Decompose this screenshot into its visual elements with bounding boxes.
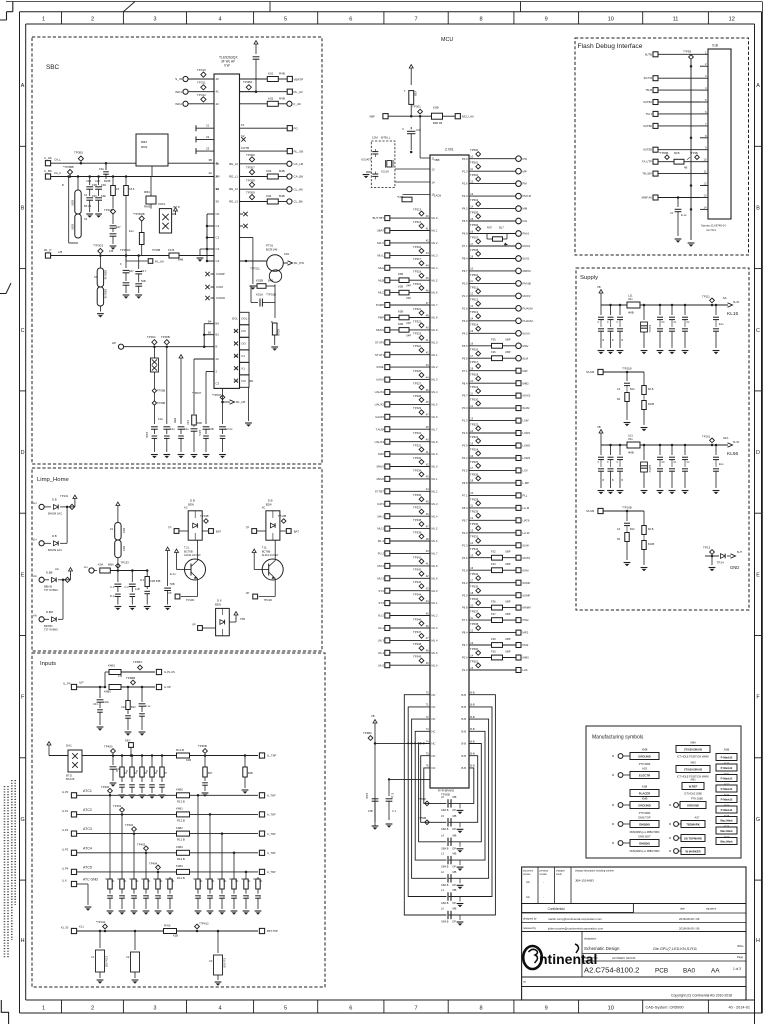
MCU left pin row 23 wire bbox=[385, 489, 390, 494]
capacitor column b left 1 bbox=[600, 445, 602, 455]
svg-text:A_T6P: A_T6P bbox=[267, 870, 276, 874]
MCU IC U1 body bbox=[430, 155, 469, 788]
svg-text:ML.3: ML.3 bbox=[432, 626, 438, 630]
svg-text:C42: C42 bbox=[121, 705, 126, 709]
filter chain a x644 bbox=[643, 372, 645, 385]
svg-text:C: C bbox=[756, 328, 760, 334]
svg-text:ML.3: ML.3 bbox=[432, 254, 438, 258]
test point TP131 bbox=[66, 506, 69, 509]
svg-text:K02: K02 bbox=[268, 96, 274, 100]
resistor on left row 6 bbox=[399, 278, 409, 283]
svg-text:BAV99 2AC: BAV99 2AC bbox=[48, 512, 62, 516]
fold mark top tick 2 bbox=[269, 2, 271, 12]
svg-text:P6.8: P6.8 bbox=[462, 606, 468, 610]
svg-text:C22: C22 bbox=[416, 128, 421, 132]
svg-text:JBA-1514AB3: JBA-1514AB3 bbox=[575, 879, 594, 883]
svg-text:TP511: TP511 bbox=[470, 285, 478, 289]
sheet right edge line bbox=[761, 2, 763, 1014]
svg-text:B: B bbox=[756, 206, 760, 212]
svg-text:*TP11B: *TP11B bbox=[622, 367, 632, 371]
svg-text:P6.8: P6.8 bbox=[462, 481, 468, 485]
svg-text:5: 5 bbox=[284, 1006, 287, 1012]
svg-text:VBB: VBB bbox=[434, 158, 440, 162]
svg-text:DO: DO bbox=[242, 329, 247, 333]
svg-text:IL.PLUS: IL.PLUS bbox=[164, 670, 175, 674]
svg-text:C2: C2 bbox=[126, 955, 130, 959]
SBC right pin row CA_H6 bbox=[240, 163, 287, 165]
svg-text:C3: C3 bbox=[209, 959, 213, 963]
svg-text:TP505: TP505 bbox=[470, 210, 479, 214]
svg-text:MU.L: MU.L bbox=[377, 254, 384, 258]
svg-text:R12.B: R12.B bbox=[177, 857, 185, 861]
svg-text:TP111: TP111 bbox=[702, 294, 710, 298]
SBC inner no-connect marks right side bbox=[234, 329, 238, 333]
MCU right pin row 5 wire bbox=[469, 208, 516, 210]
svg-text:R4.B: R4.B bbox=[164, 923, 170, 927]
terminal A left bbox=[174, 529, 179, 534]
svg-text:TP323: TP323 bbox=[413, 332, 422, 336]
SBC right pin box row 4 bbox=[240, 350, 250, 362]
svg-text:6UM: 6UM bbox=[523, 568, 530, 572]
svg-text:BT.D: BT.D bbox=[66, 774, 72, 778]
test point TP517 on right row 18 bbox=[476, 364, 481, 369]
svg-text:PTH.30B0: PTH.30B0 bbox=[691, 797, 704, 801]
svg-text:released by: released by bbox=[523, 927, 537, 930]
svg-text:B: B bbox=[21, 206, 25, 212]
svg-text:MLC: MLC bbox=[378, 291, 384, 295]
svg-text:MM2: MM2 bbox=[523, 381, 530, 385]
connector X1B pin 13 bbox=[700, 197, 708, 199]
RC filter column group1 5 bbox=[157, 877, 159, 879]
svg-text:ML.6: ML.6 bbox=[432, 539, 438, 543]
MCU left pin row 25 wire bbox=[385, 514, 390, 519]
test point TP314 on left row 5 bbox=[419, 261, 424, 266]
svg-text:K1: K1 bbox=[242, 367, 246, 371]
svg-text:E1u: E1u bbox=[719, 323, 724, 326]
resistor RB4 bbox=[150, 177, 152, 197]
test point TP526 on right row 27 bbox=[476, 476, 481, 481]
svg-text:LXW2: LXW2 bbox=[523, 444, 531, 448]
svg-text:AL911.04.F1D: AL911.04.F1D bbox=[262, 553, 279, 557]
svg-text:TP500: TP500 bbox=[470, 647, 479, 651]
svg-text:VBF: VBF bbox=[369, 114, 375, 118]
svg-text:TP307: TP307 bbox=[246, 166, 255, 170]
svg-text:6UW: 6UW bbox=[523, 543, 530, 547]
svg-text:BCT6B: BCT6B bbox=[262, 549, 271, 553]
svg-text:T2T W BMC: T2T W BMC bbox=[44, 628, 58, 632]
svg-text:B-B: B-B bbox=[462, 754, 467, 758]
svg-text:6: 6 bbox=[349, 17, 352, 23]
svg-text:PU.2: PU.2 bbox=[378, 552, 385, 556]
test point TP311 bbox=[201, 85, 206, 90]
svg-text:IL.6: IL.6 bbox=[62, 879, 67, 883]
svg-text:TP326: TP326 bbox=[413, 369, 422, 373]
manufacturing fiducial rect 8 bbox=[716, 827, 737, 834]
svg-text:8: 8 bbox=[479, 17, 482, 23]
svg-text:4: 4 bbox=[219, 1006, 222, 1012]
svg-text:GB4.B: GB4.B bbox=[441, 884, 449, 887]
terminal ATC4 out bbox=[259, 850, 264, 855]
svg-text:L.MP: L.MP bbox=[523, 481, 530, 485]
svg-text:R: R bbox=[126, 770, 128, 773]
terminal B right bbox=[280, 530, 286, 532]
svg-text:TM.B: TM.B bbox=[645, 88, 652, 92]
svg-text:UBP: UBP bbox=[505, 350, 511, 354]
RC filter column group2 1 bbox=[197, 877, 199, 879]
svg-text:mm 5x1: mm 5x1 bbox=[706, 228, 716, 232]
svg-text:RB4: RB4 bbox=[144, 190, 150, 194]
svg-text:MP: MP bbox=[523, 169, 527, 173]
svg-text:P4.2: P4.2 bbox=[462, 331, 468, 335]
svg-text:TP: TP bbox=[246, 526, 250, 530]
SBC stair pin row 2 bbox=[207, 225, 214, 227]
MCU right pin row 32 wire bbox=[469, 544, 516, 546]
resistor on right row 34 bbox=[492, 568, 503, 573]
oscillator wire to pin 14 bbox=[395, 181, 430, 183]
svg-text:TP314: TP314 bbox=[413, 220, 422, 224]
test point TP346 on left row 37 bbox=[419, 658, 424, 663]
test point TP514 on right row 15 bbox=[476, 326, 481, 331]
svg-text:PW2: PW2 bbox=[523, 618, 530, 622]
svg-text:T.2L: T.2L bbox=[262, 546, 268, 550]
svg-text:*TP56B: *TP56B bbox=[659, 151, 668, 155]
terminal 6UTB3 wire bbox=[653, 147, 658, 152]
svg-text:AC: AC bbox=[262, 506, 266, 510]
svg-text:*TP007: *TP007 bbox=[212, 393, 222, 397]
capacitor column a left 2 bbox=[609, 304, 612, 307]
test point on ATC5 bbox=[157, 871, 160, 874]
svg-text:ML.2: ML.2 bbox=[378, 539, 385, 543]
manufacturing symbol mid XMA bbox=[676, 746, 710, 753]
battery divider resistor stack left bbox=[68, 177, 70, 244]
svg-text:XMA: XMA bbox=[690, 741, 696, 745]
svg-text:BAT: BAT bbox=[294, 529, 300, 533]
svg-text:ML.2: ML.2 bbox=[432, 614, 438, 618]
svg-text:ST.3: ST.3 bbox=[378, 601, 384, 605]
test point TP339 on left row 30 bbox=[419, 571, 424, 576]
svg-text:T6B: T6B bbox=[240, 617, 245, 621]
test point TP510 on right row 11 bbox=[476, 276, 481, 281]
MCU right pin row 13 wire bbox=[469, 307, 516, 309]
svg-text:ML.8: ML.8 bbox=[432, 316, 438, 320]
svg-text:VB: VB bbox=[597, 425, 601, 429]
test point TP340 on left row 31 bbox=[419, 584, 424, 589]
svg-text:TP30B: TP30B bbox=[157, 401, 165, 405]
svg-text:R07: R07 bbox=[487, 225, 492, 229]
test point TP40B main bbox=[203, 749, 208, 754]
svg-text:G: G bbox=[20, 817, 24, 823]
svg-text:D.1u: D.1u bbox=[110, 594, 116, 598]
svg-text:R12.B: R12.B bbox=[177, 838, 185, 842]
svg-text:MB: MB bbox=[453, 852, 457, 856]
svg-text:2T/A3/A3K/AB: 2T/A3/A3K/AB bbox=[684, 748, 702, 752]
capacitor column a left 1 bbox=[600, 305, 602, 315]
svg-text:13: 13 bbox=[704, 194, 707, 198]
svg-text:C: C bbox=[112, 896, 114, 899]
connector X1B pin 10 bbox=[700, 161, 708, 163]
svg-text:6UM2: 6UM2 bbox=[523, 581, 531, 585]
svg-text:P2.6: P2.6 bbox=[462, 182, 468, 186]
svg-text:2.B: 2.B bbox=[118, 674, 122, 678]
test point TP325 on left row 16 bbox=[419, 397, 424, 402]
svg-text:BZX: BZX bbox=[122, 546, 126, 551]
svg-text:ICT HOLE POSITION MARK: ICT HOLE POSITION MARK bbox=[677, 756, 709, 759]
capacitor C701 debug bbox=[677, 196, 680, 199]
svg-text:TP538: TP538 bbox=[470, 622, 479, 626]
capacitor column 3 left cluster bbox=[105, 163, 107, 170]
terminal ILP_IN upper bbox=[156, 669, 161, 674]
svg-text:R12.B: R12.B bbox=[176, 748, 184, 752]
emitter wire to terminal B bbox=[274, 579, 276, 597]
terminal arrow KL56 bbox=[728, 443, 733, 447]
svg-text:PCB: PCB bbox=[655, 968, 668, 975]
svg-text:T6U.BV: T6U.BV bbox=[642, 172, 652, 176]
svg-text:TP518: TP518 bbox=[470, 373, 479, 377]
svg-text:VP: VP bbox=[168, 591, 172, 595]
MCU left pin row 19 wire bbox=[385, 439, 390, 444]
svg-text:14: 14 bbox=[432, 181, 436, 185]
test point TP133 bbox=[117, 569, 120, 572]
svg-text:C3: C3 bbox=[216, 382, 220, 386]
terminal ATC4 bbox=[71, 850, 76, 855]
crystal X300 bbox=[387, 161, 392, 167]
svg-text:Copyright (C) Continental AG 2: Copyright (C) Continental AG 2010-2018 bbox=[671, 994, 732, 998]
opto diode box D146 bbox=[266, 511, 280, 540]
SBC no-connect pin COMH bbox=[211, 297, 215, 299]
wire RB3 top to SBC row bbox=[151, 166, 153, 177]
svg-text:TP30B: TP30B bbox=[161, 335, 170, 339]
sheet top edge line bbox=[6, 1, 762, 3]
RC column DA1 2 bbox=[131, 754, 134, 757]
svg-text:A2.C754-8100.2: A2.C754-8100.2 bbox=[584, 966, 639, 975]
resistor on right row 33 bbox=[492, 555, 503, 560]
svg-text:R4B: R4B bbox=[279, 72, 285, 76]
svg-text:TP400: TP400 bbox=[101, 785, 110, 789]
svg-text:D.BM: D.BM bbox=[46, 610, 54, 614]
svg-text:C1: C1 bbox=[91, 955, 95, 959]
svg-text:P3.9: P3.9 bbox=[462, 194, 468, 198]
RC column DA1 3 bbox=[141, 754, 144, 757]
svg-text:GB4.B: GB4.B bbox=[441, 902, 449, 905]
svg-text:42: 42 bbox=[216, 102, 220, 106]
svg-text:MA.2: MA.2 bbox=[377, 514, 384, 518]
test point TP324 on left row 15 bbox=[419, 385, 424, 390]
resistor R442 lower bbox=[105, 686, 109, 688]
svg-text:TP133: TP133 bbox=[121, 561, 130, 565]
test point TP530 on right row 31 bbox=[476, 526, 481, 531]
zener stack D135 bbox=[115, 523, 121, 541]
test point TP328 on left row 19 bbox=[419, 435, 424, 440]
svg-text:6UX1: 6UX1 bbox=[523, 257, 530, 261]
test point TP310 bbox=[201, 72, 206, 77]
svg-text:*TP303: *TP303 bbox=[93, 244, 103, 248]
released by row bbox=[522, 922, 746, 924]
svg-text:TP308: TP308 bbox=[246, 178, 255, 182]
connector X1B pin 14 bbox=[700, 208, 708, 210]
svg-text:TP319: TP319 bbox=[413, 282, 422, 286]
svg-text:*K0B: *K0B bbox=[397, 195, 403, 199]
svg-text:TPS0B: TPS0B bbox=[441, 793, 450, 797]
capacitor C335 bbox=[219, 426, 226, 428]
capacitor C621 bbox=[388, 779, 390, 796]
svg-text:TP348: TP348 bbox=[413, 642, 422, 646]
svg-text:10: 10 bbox=[704, 158, 707, 162]
svg-text:NC: NC bbox=[432, 705, 436, 709]
svg-text:TP349: TP349 bbox=[413, 655, 422, 659]
svg-text:SB TOPMARK: SB TOPMARK bbox=[684, 837, 702, 841]
MCU left pin row 35 wire bbox=[385, 638, 390, 643]
svg-text:UBP: UBP bbox=[505, 550, 511, 554]
svg-text:TP301: TP301 bbox=[412, 105, 421, 109]
svg-text:LXV: LXV bbox=[523, 469, 528, 473]
capacitor C612 bypass bbox=[447, 893, 449, 901]
MCU right pin row 39 wire bbox=[469, 632, 516, 634]
svg-text:E4.7: E4.7 bbox=[141, 269, 147, 273]
SBC right pin box row 1 bbox=[240, 312, 250, 324]
svg-text:P4.2: P4.2 bbox=[462, 456, 468, 460]
manufacturing symbol ASB bbox=[630, 790, 659, 797]
svg-text:TP131: TP131 bbox=[60, 494, 69, 498]
capacitor chain with power mid 4 bbox=[167, 551, 169, 555]
svg-text:T.AUM: T.AUM bbox=[376, 427, 385, 431]
svg-text:LA6: LA6 bbox=[523, 668, 528, 672]
SBC right no-connect X bbox=[240, 225, 244, 227]
svg-text:C: C bbox=[224, 896, 226, 899]
svg-text:martin.romy@continental-corpor: martin.romy@continental-corporation.com bbox=[548, 917, 602, 921]
SBC left pin row stub 2 bbox=[195, 136, 197, 142]
svg-text:AA: AA bbox=[55, 567, 59, 571]
ground GND mini bbox=[709, 567, 716, 569]
svg-text:R: R bbox=[254, 878, 256, 881]
svg-text:P-Mark.B: P-Mark.B bbox=[721, 766, 733, 770]
svg-text:CA_B6: CA_B6 bbox=[294, 175, 304, 179]
svg-text:D.B: D.B bbox=[268, 499, 273, 503]
svg-text:ML.6: ML.6 bbox=[432, 663, 438, 667]
power arrow at K203 bbox=[172, 213, 176, 215]
svg-text:K4B1: K4B1 bbox=[176, 807, 183, 811]
svg-text:2018-08-09 I 06: 2018-08-09 I 06 bbox=[679, 926, 700, 930]
svg-text:K0B: K0B bbox=[398, 285, 403, 289]
svg-text:LACB: LACB bbox=[434, 194, 441, 198]
power flag supply rail b bbox=[600, 433, 602, 437]
svg-text:B-B: B-B bbox=[470, 703, 475, 707]
row letter band right bbox=[755, 145, 762, 147]
svg-text:F6L: F6L bbox=[523, 219, 528, 223]
svg-text:DP: DP bbox=[453, 866, 457, 869]
diode array DA1 bbox=[49, 755, 68, 757]
terminal ATC3 bbox=[71, 831, 76, 836]
supply rail wire a bbox=[601, 304, 728, 306]
svg-text:BL7: BL7 bbox=[499, 225, 504, 229]
svg-text:RM3: RM3 bbox=[144, 205, 151, 209]
MCU right pin row 24 wire bbox=[469, 445, 516, 447]
test point TP507 on right row 8 bbox=[476, 239, 481, 244]
terminal ATC2 bbox=[71, 812, 76, 817]
svg-text:E.1u: E.1u bbox=[681, 213, 687, 217]
svg-text:P9.7: P9.7 bbox=[462, 643, 468, 647]
svg-text:TP3B1: TP3B1 bbox=[74, 151, 84, 155]
svg-text:PM.6B: PM.6B bbox=[523, 282, 532, 286]
test point TP509 bbox=[425, 820, 430, 825]
svg-text:VA.M6: VA.M6 bbox=[586, 370, 595, 374]
terminal 6U/TM wire bbox=[653, 76, 658, 81]
svg-text:TP317: TP317 bbox=[413, 257, 422, 261]
svg-text:ML.9: ML.9 bbox=[432, 328, 438, 332]
fold mark left edge bbox=[0, 283, 11, 294]
svg-text:ST.AT6: ST.AT6 bbox=[375, 340, 384, 344]
svg-text:16B: 16B bbox=[209, 427, 214, 431]
junction TP300A bbox=[125, 254, 128, 257]
svg-text:DP: DP bbox=[453, 902, 457, 905]
svg-text:R: R bbox=[118, 878, 120, 881]
svg-text:GND: GND bbox=[730, 565, 739, 570]
svg-text:B10: B10 bbox=[630, 388, 635, 391]
svg-text:Mac.Mark: Mac.Mark bbox=[720, 819, 733, 823]
svg-text:UA.5: UA.5 bbox=[378, 663, 385, 667]
svg-text:U4P: U4P bbox=[406, 333, 411, 337]
MCU left pin row 7 wire bbox=[385, 290, 390, 295]
svg-text:E47: E47 bbox=[116, 225, 121, 229]
collector wire A bbox=[197, 540, 199, 560]
svg-text:C: C bbox=[172, 896, 174, 899]
svg-text:ML.5: ML.5 bbox=[432, 527, 438, 531]
svg-text:P8.4: P8.4 bbox=[462, 506, 468, 510]
svg-text:TP310: TP310 bbox=[197, 68, 206, 72]
svg-text:ASB: ASB bbox=[724, 748, 730, 752]
power arrow D150 right bbox=[229, 621, 236, 623]
svg-text:UAT1: UAT1 bbox=[377, 502, 384, 506]
SBC right pin row PG bbox=[240, 127, 288, 129]
svg-text:K203: K203 bbox=[158, 202, 165, 206]
svg-text:C_H6: C_H6 bbox=[44, 156, 52, 160]
svg-text:UAUX: UAUX bbox=[376, 378, 384, 382]
Limp_Home block dashed border bbox=[32, 468, 322, 651]
svg-text:11: 11 bbox=[673, 17, 679, 23]
svg-text:F32: F32 bbox=[491, 550, 496, 554]
svg-text:TP327: TP327 bbox=[413, 381, 422, 385]
svg-text:IL_T6P: IL_T6P bbox=[267, 754, 276, 758]
svg-text:document: document bbox=[523, 870, 533, 873]
svg-text:K3D: K3D bbox=[101, 183, 106, 187]
SBC right pin box row 3 bbox=[240, 337, 250, 349]
svg-text:*TP007: *TP007 bbox=[192, 391, 202, 395]
power arrow bypass bbox=[374, 723, 376, 727]
resistor on right row 17 bbox=[492, 356, 503, 361]
svg-text:VB: VB bbox=[371, 714, 375, 718]
capacitor column a left 3 bbox=[619, 304, 622, 307]
svg-text:32A: 32A bbox=[723, 436, 728, 440]
svg-text:NC: NC bbox=[432, 742, 436, 746]
svg-text:TP13: TP13 bbox=[703, 546, 711, 550]
wire bypass to MCU BFP pin bbox=[374, 742, 377, 745]
svg-text:MU.2: MU.2 bbox=[377, 527, 384, 531]
svg-text:C: C bbox=[236, 896, 238, 899]
svg-text:P0.0: P0.0 bbox=[462, 282, 468, 286]
svg-text:ML.0: ML.0 bbox=[432, 216, 438, 220]
svg-text:R: R bbox=[116, 770, 118, 773]
svg-text:BZX: BZX bbox=[122, 528, 126, 533]
svg-text:TP400: TP400 bbox=[104, 745, 113, 749]
diode K203 box bbox=[150, 204, 152, 209]
test point TP13D bbox=[62, 579, 65, 582]
svg-text:K1: K1 bbox=[241, 123, 245, 127]
manufacturing fiducial rect 2 bbox=[716, 764, 737, 771]
diode join wire bbox=[66, 507, 68, 543]
svg-text:C4: C4 bbox=[216, 259, 220, 263]
svg-text:K04: K04 bbox=[284, 252, 289, 256]
wire ATC5 bbox=[77, 871, 258, 873]
SBC no-connect pin COMP bbox=[211, 273, 215, 275]
